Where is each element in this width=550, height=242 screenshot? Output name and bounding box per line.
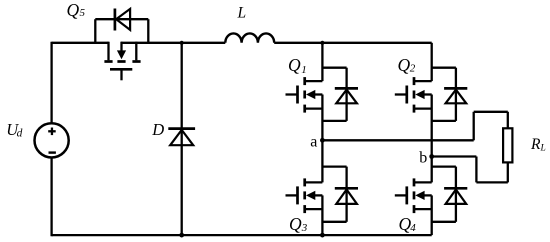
wire: Q4 diode branch bottom tap xyxy=(432,221,456,223)
wire: top rail left segment (source to Q5) xyxy=(52,42,109,44)
transistor Q5 channel bars xyxy=(104,60,112,63)
transistor Q1 body arrow (left) xyxy=(306,90,315,99)
wire: Q5 antiparallel diode loop left vertical xyxy=(94,19,96,44)
wire: Q1 diode branch bottom tap xyxy=(322,120,346,122)
transistor Q4 gate lead xyxy=(395,194,407,196)
wire: load top horizontal xyxy=(474,111,508,113)
transistor Q4 source lead xyxy=(414,208,432,210)
svg-text:Q: Q xyxy=(398,55,411,75)
wire: bottom rail xyxy=(52,234,432,236)
svg-text:3: 3 xyxy=(301,222,308,234)
transistor Q4 gate bar xyxy=(405,186,408,204)
wire: Q2 diode branch bottom tap xyxy=(432,120,456,122)
svg-text:1: 1 xyxy=(301,64,307,76)
voltage source minus sign xyxy=(49,151,56,153)
transistor Q5 gate stub xyxy=(120,70,122,80)
transistor Q2 channel bars xyxy=(413,77,416,85)
transistor Q4 body arrow (left) xyxy=(415,191,424,200)
wire: left vertical below source Ud xyxy=(50,157,52,236)
transistor Q3 gate bar xyxy=(296,186,299,204)
svg-text:D: D xyxy=(151,120,164,139)
wire: top rail from Q5 to inductor L xyxy=(121,42,225,44)
wire: Q3 source vertical to bottom rail xyxy=(321,195,323,235)
wire: Q2 branch drain vertical from top rail xyxy=(431,43,433,81)
Q5 antiparallel diode triangle (pointing left) xyxy=(116,9,130,30)
Q3 antiparallel diode cathode bar xyxy=(335,187,358,190)
transistor Q3 drain lead xyxy=(305,181,323,183)
Q4 antiparallel diode cathode bar xyxy=(444,187,467,190)
resistor RL box xyxy=(503,128,512,162)
svg-text:5: 5 xyxy=(80,7,86,19)
Q1 antiparallel diode cathode bar xyxy=(335,87,358,90)
wire: Q1 diode branch vertical xyxy=(345,68,347,121)
transistor Q4 drain lead xyxy=(414,181,432,183)
junction dot: Q1 branch at top rail xyxy=(320,41,324,45)
transistor Q2 gate lead xyxy=(395,93,407,95)
wire: Q2-Q4 midpoint vertical (through node b) xyxy=(431,95,433,183)
Q4 antiparallel diode triangle (pointing up) xyxy=(446,190,467,204)
voltage source plus sign xyxy=(48,130,56,132)
transistor Q1 gate lead xyxy=(286,93,298,95)
transistor Q4 channel bars xyxy=(413,178,416,186)
wire: top rail from L to Q2 branch xyxy=(274,42,432,44)
transistor Q5 drain lead xyxy=(135,42,137,61)
transistor Q2 gate bar xyxy=(405,86,408,104)
wire: load bottom horizontal xyxy=(476,181,507,183)
svg-text:b: b xyxy=(419,150,427,167)
wire: Q1 branch drain vertical from top rail xyxy=(321,43,323,81)
wire: Q1 diode branch top tap xyxy=(322,67,346,69)
junction dot: Q3 branch at bottom rail xyxy=(320,233,325,238)
wire: Q3 diode branch vertical xyxy=(345,167,347,222)
wire: node b horizontal line xyxy=(432,155,477,157)
svg-text:Q: Q xyxy=(67,0,80,20)
transistor Q5 gate bar xyxy=(110,68,132,71)
Q2 antiparallel diode cathode bar xyxy=(444,87,467,90)
transistor Q1 gate bar xyxy=(296,86,299,104)
svg-text:L: L xyxy=(237,4,247,21)
transistor Q3 gate lead xyxy=(286,194,298,196)
wire: Q2 diode branch top tap xyxy=(432,67,456,69)
wire: diode D branch vertical xyxy=(181,43,183,235)
wire: load top jog vertical xyxy=(473,112,475,141)
wire: load bottom jog vertical xyxy=(475,157,477,183)
svg-text:d: d xyxy=(17,127,23,139)
wire: Q2 diode branch vertical xyxy=(455,68,457,121)
Q3 antiparallel diode triangle (pointing up) xyxy=(336,190,357,204)
wire: Q4 source vertical to bottom rail xyxy=(431,195,433,235)
transistor Q3 channel bars xyxy=(303,178,306,186)
wire: Q5 antiparallel diode loop top horizontal xyxy=(95,18,148,20)
transistor Q3 body arrow (left) xyxy=(306,191,315,200)
svg-text:L: L xyxy=(540,144,546,154)
transistor Q1 channel bars xyxy=(303,77,306,85)
svg-text:R: R xyxy=(530,136,541,153)
transistor Q1 drain lead xyxy=(305,80,323,82)
diode D cathode bar xyxy=(168,127,195,130)
wire: left vertical above source Ud xyxy=(50,42,52,124)
wire: Q3 diode branch bottom tap xyxy=(322,221,346,223)
transistor Q2 body arrow (left) xyxy=(415,90,424,99)
wire: Q4 diode branch top tap xyxy=(432,165,456,167)
junction dot: D branch at bottom rail xyxy=(179,233,184,238)
transistor Q3 source lead xyxy=(305,208,323,210)
svg-text:Q: Q xyxy=(289,214,302,234)
wire: Q3 diode branch top tap xyxy=(322,165,346,167)
Q1 antiparallel diode triangle (pointing up) xyxy=(336,90,357,104)
node a junction dot xyxy=(320,138,325,143)
transistor Q2 drain lead xyxy=(414,80,432,82)
Q5 antiparallel diode cathode bar xyxy=(114,9,117,31)
wire: load top lead down to RL xyxy=(507,112,509,129)
transistor Q5 body arrow (down) xyxy=(120,42,122,52)
svg-text:4: 4 xyxy=(410,222,416,234)
transistor Q2 source lead xyxy=(414,107,432,109)
svg-text:Q: Q xyxy=(288,55,301,75)
junction dot: D branch at top rail xyxy=(180,41,184,45)
wire: node a horizontal line to load xyxy=(322,139,473,141)
node b junction dot xyxy=(429,154,434,159)
Q2 antiparallel diode triangle (pointing up) xyxy=(446,90,467,104)
diode D triangle xyxy=(170,130,193,145)
inductor L xyxy=(225,33,274,42)
svg-text:2: 2 xyxy=(410,63,416,75)
transistor Q1 source lead xyxy=(305,107,323,109)
voltage source Ud circle xyxy=(35,123,69,157)
wire: load bottom lead up to RL xyxy=(507,162,509,182)
wire: Q4 diode branch vertical xyxy=(455,167,457,222)
wire: Q1-Q3 midpoint vertical (through node a) xyxy=(321,95,323,183)
wire: Q5 antiparallel diode loop right vertical xyxy=(147,19,149,44)
svg-text:a: a xyxy=(310,133,317,150)
transistor Q5 source lead xyxy=(107,42,109,61)
